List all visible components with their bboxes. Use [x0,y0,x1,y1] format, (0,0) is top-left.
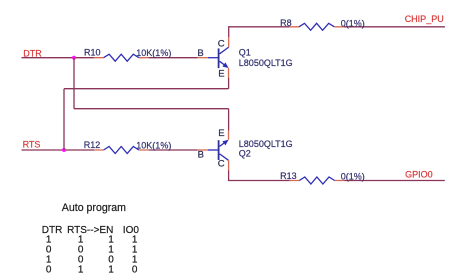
svg-text:Q2: Q2 [239,148,251,158]
svg-text:RTS: RTS [23,139,41,149]
transistor Q1 [198,37,229,78]
wire top horizontal right of R8 to CHIP_PU [344,26,445,28]
svg-text:R10: R10 [84,47,101,57]
svg-text:R12: R12 [84,140,101,150]
wire RTS horizontal left segment [22,149,95,151]
wire Q1 collector vertical to top [228,27,230,37]
wire top horizontal left of R8 [228,26,290,28]
wire bottom horizontal right of R13 to GPIO0 [344,180,445,182]
node DTR junction [72,56,76,60]
svg-text:0: 0 [46,265,52,276]
svg-text:10K(1%): 10K(1%) [136,140,171,150]
svg-text:E: E [218,68,224,79]
svg-text:L8050QLT1G: L8050QLT1G [239,58,293,68]
wire bottom horizontal left of R13 [228,180,290,182]
wire RTS horizontal right segment to Q2 base [148,149,197,151]
Q2 collector diagonal [220,154,229,160]
wire vertical down to Q2 emitter [228,109,230,131]
wire Q2 collector vertical to bottom [228,170,230,180]
svg-text:CHIP_PU: CHIP_PU [405,14,444,24]
svg-text:DTR: DTR [23,48,42,58]
table row 3: 1 0 0 1 [46,255,138,266]
svg-text:C: C [218,159,225,170]
svg-text:E: E [218,128,224,139]
Q1 collector diagonal [220,47,229,54]
svg-text:GPIO0: GPIO0 [405,170,433,180]
resistor R8 [290,23,344,30]
svg-text:1: 1 [108,265,114,276]
svg-text:0(1%): 0(1%) [341,172,365,182]
table header row: DTR, RTS, EN, IO0 [42,225,140,236]
svg-text:10K(1%): 10K(1%) [136,48,171,58]
wire DTR horizontal left segment [22,57,95,59]
Q1 collector pin stub [228,37,230,47]
node RTS junction [62,148,66,152]
svg-text:B: B [197,48,203,59]
Q1 emitter arrowhead [222,62,228,68]
svg-text:0: 0 [132,265,138,276]
svg-text:0(1%): 0(1%) [341,18,365,28]
Q2 emitter arrowhead [222,140,228,146]
svg-text:R8: R8 [280,18,292,28]
svg-text:L8050QLT1G: L8050QLT1G [239,139,293,149]
Q2 collector pin stub [228,160,230,170]
svg-text:RTS-->EN: RTS-->EN [67,225,113,236]
svg-text:C: C [218,38,225,49]
resistor R13 [290,177,345,184]
resistor R12 [94,147,148,154]
table row 2: 0 0 1 1 [46,244,138,255]
wire DTR junction vertical down [73,58,75,109]
table row 1: 1 1 1 1 [46,234,138,245]
svg-text:R13: R13 [280,171,297,181]
Q1 base pin stub [198,57,208,59]
Q1 base bar [218,48,220,68]
transistor Q2 [198,131,229,171]
Q1 base symbol line [208,57,218,59]
Q1 emitter pin stub [228,68,230,78]
svg-text:Q1: Q1 [239,48,251,58]
table row 4: 0 1 1 0 [46,265,138,276]
Q2 base symbol line [208,149,218,151]
wire upper crossing horizontal RTS to Q1 emitter [64,88,229,90]
Q2 emitter pin stub [228,131,230,140]
svg-text:1: 1 [78,265,84,276]
wire lower crossing horizontal DTR to Q2 emitter [74,108,229,110]
wire RTS junction vertical up [63,89,65,150]
resistor R10 [94,54,148,61]
wire vertical up to Q1 emitter [228,78,230,89]
wire DTR horizontal right segment to Q1 base [148,57,197,59]
Q2 emitter diagonal [220,141,227,146]
svg-text:B: B [198,149,204,160]
svg-text:Auto program: Auto program [62,202,126,214]
Q2 base pin stub [198,149,208,151]
Q2 base bar [218,140,220,160]
Q1 emitter diagonal [220,61,227,66]
